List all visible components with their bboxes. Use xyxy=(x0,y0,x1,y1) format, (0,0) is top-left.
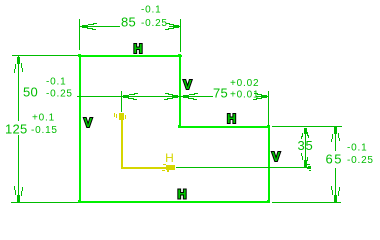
svg-text:65: 65 xyxy=(326,152,343,167)
dim 50 right arrow xyxy=(164,93,178,100)
dim 125 line lower segment xyxy=(18,135,19,202)
svg-text:H: H xyxy=(165,151,174,165)
yellow V axis line xyxy=(121,113,123,168)
svg-text:V: V xyxy=(272,150,281,164)
svg-text:-0.25: -0.25 xyxy=(347,155,374,166)
svg-text:75: 75 xyxy=(213,86,228,101)
dim 75 right extension line xyxy=(268,91,269,126)
svg-text:+0.1: +0.1 xyxy=(32,113,55,124)
part outline bottom edge xyxy=(78,201,270,203)
dim 65 down arrow xyxy=(331,186,340,202)
svg-text:-0.1: -0.1 xyxy=(141,5,161,16)
svg-text:H: H xyxy=(227,112,236,126)
svg-text:H: H xyxy=(177,188,186,202)
dim 65 line lower segment xyxy=(335,168,336,202)
dim 85 line right segment xyxy=(169,26,180,27)
yellow H axis line xyxy=(121,167,175,169)
dim 35 line lower segment xyxy=(305,136,306,161)
dim 125 top extension line xyxy=(12,55,78,56)
yellow V axis up arrow xyxy=(114,113,126,120)
svg-text:50: 50 xyxy=(23,85,38,100)
dim 35 up arrow xyxy=(301,128,309,139)
dim 35 line upper segment xyxy=(305,128,306,136)
svg-text:+0.01: +0.01 xyxy=(230,90,259,101)
vertex step-right xyxy=(267,125,270,128)
dim 75 left arrow xyxy=(183,93,198,100)
svg-text:-0.25: -0.25 xyxy=(141,18,168,29)
part outline top edge xyxy=(78,55,182,57)
dim 50 left arrow xyxy=(123,93,138,100)
dim 125 bottom extension line xyxy=(11,202,78,203)
dim 65 bottom extension line xyxy=(272,202,341,203)
vertex bottom-right xyxy=(267,200,270,203)
vertex step-inner xyxy=(178,125,181,128)
dim 85 right arrow xyxy=(165,23,179,30)
dim 50 extension line at axis xyxy=(121,91,122,112)
svg-text:-0.1: -0.1 xyxy=(46,77,66,88)
dim 125 line upper segment xyxy=(18,56,19,121)
dim 65 line upper segment xyxy=(335,128,336,151)
svg-text:-0.15: -0.15 xyxy=(31,125,58,136)
dim 50/75 shared dimension line xyxy=(77,96,213,97)
yellow H axis right arrow xyxy=(162,164,175,172)
dim 75 right arrow xyxy=(253,93,267,100)
svg-text:H: H xyxy=(133,42,142,56)
dim 35 down arrow xyxy=(301,153,311,171)
dim 65 up arrow xyxy=(331,127,340,142)
svg-text:V: V xyxy=(84,116,93,130)
svg-text:125: 125 xyxy=(5,122,28,137)
dim 85 right extension line xyxy=(180,19,181,52)
dim 85 left extension line xyxy=(79,19,80,50)
svg-text:-0.25: -0.25 xyxy=(46,89,73,100)
dim 85 line left segment xyxy=(80,26,120,27)
svg-text:V: V xyxy=(183,78,192,92)
vertex top-right xyxy=(178,54,181,57)
dim 85 left arrow xyxy=(82,23,97,30)
dim 75 line right segment xyxy=(256,96,268,97)
part outline left edge xyxy=(79,55,81,203)
dim 125 up arrow xyxy=(14,57,23,73)
part outline upper-right edge xyxy=(179,55,181,127)
dim 65 top extension line xyxy=(272,126,342,127)
vertex bottom-left xyxy=(78,200,81,203)
vertex top-left xyxy=(78,54,81,57)
part outline step edge xyxy=(179,126,269,128)
svg-text:35: 35 xyxy=(298,138,314,153)
svg-text:+0.02: +0.02 xyxy=(230,78,259,89)
svg-text:85: 85 xyxy=(121,15,136,30)
dim 35 bottom extension line xyxy=(176,167,311,168)
dim 125 down arrow xyxy=(14,186,23,202)
part outline right edge xyxy=(268,126,270,203)
svg-text:-0.1: -0.1 xyxy=(347,143,367,154)
